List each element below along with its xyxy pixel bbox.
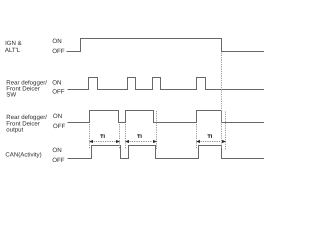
svg-text:SW: SW bbox=[6, 92, 16, 99]
svg-text:output: output bbox=[6, 126, 23, 133]
svg-text:OFF: OFF bbox=[53, 123, 66, 130]
svg-text:OFF: OFF bbox=[52, 157, 65, 164]
svg-text:OFF: OFF bbox=[52, 89, 65, 96]
svg-text:OFF: OFF bbox=[52, 48, 65, 55]
svg-text:CAN(Activity): CAN(Activity) bbox=[5, 151, 41, 158]
svg-text:ON: ON bbox=[52, 80, 61, 87]
svg-text:ALT'L: ALT'L bbox=[5, 47, 21, 54]
svg-text:IGN &: IGN & bbox=[5, 40, 22, 47]
svg-text:ON: ON bbox=[53, 113, 62, 120]
svg-text:ON: ON bbox=[52, 38, 61, 45]
svg-text:ON: ON bbox=[52, 147, 61, 154]
